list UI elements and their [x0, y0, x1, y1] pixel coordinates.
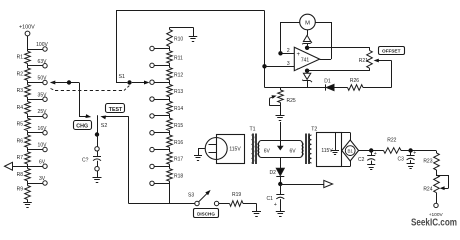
svg-text:T2: T2	[311, 127, 317, 133]
svg-text:B1: B1	[348, 148, 354, 153]
svg-text:SeekIC.com: SeekIC.com	[411, 217, 457, 228]
svg-text:DISCHG: DISCHG	[197, 211, 215, 216]
svg-text:100V: 100V	[36, 42, 48, 48]
svg-text:R19: R19	[232, 192, 241, 198]
svg-text:R4: R4	[17, 105, 24, 111]
svg-text:R23: R23	[423, 159, 432, 165]
svg-text:R1: R1	[17, 55, 24, 61]
svg-text:D2: D2	[270, 170, 277, 176]
svg-text:S3: S3	[188, 193, 194, 199]
svg-text:M: M	[305, 20, 310, 26]
svg-text:−: −	[297, 66, 301, 72]
svg-text:R17: R17	[174, 157, 183, 163]
svg-text:6V: 6V	[264, 148, 271, 154]
svg-text:D1: D1	[324, 78, 331, 84]
svg-text:115V: 115V	[229, 147, 241, 153]
svg-text:35V: 35V	[38, 92, 48, 98]
svg-text:T1: T1	[250, 127, 256, 133]
svg-text:C3: C3	[398, 156, 405, 162]
svg-text:CHG: CHG	[76, 124, 88, 130]
svg-text:C1: C1	[267, 196, 274, 202]
svg-text:25V: 25V	[38, 109, 48, 115]
svg-text:16V: 16V	[38, 126, 48, 132]
svg-text:OFFSET: OFFSET	[382, 49, 401, 54]
svg-text:+: +	[374, 151, 377, 157]
svg-text:R26: R26	[350, 78, 359, 84]
svg-text:R8: R8	[17, 172, 24, 178]
svg-text:+: +	[274, 202, 277, 208]
svg-text:R11: R11	[174, 56, 183, 62]
svg-text:3V: 3V	[39, 176, 46, 182]
svg-text:C?: C?	[82, 158, 89, 164]
svg-text:TEST: TEST	[109, 107, 123, 113]
svg-text:2: 2	[287, 48, 290, 54]
svg-text:R12: R12	[174, 72, 183, 78]
svg-text:R21: R21	[359, 58, 368, 64]
svg-text:R18: R18	[174, 173, 183, 179]
svg-text:63V: 63V	[38, 59, 48, 65]
svg-text:741: 741	[301, 57, 310, 63]
svg-text:R7: R7	[17, 155, 24, 161]
svg-text:R9: R9	[17, 187, 24, 193]
svg-text:+100V: +100V	[19, 25, 35, 31]
svg-text:R10: R10	[174, 37, 183, 43]
svg-text:3: 3	[287, 61, 290, 67]
svg-text:+: +	[413, 150, 416, 156]
svg-text:R3: R3	[17, 88, 24, 94]
svg-text:R6: R6	[17, 138, 24, 144]
svg-text:R22: R22	[387, 137, 396, 143]
svg-text:R5: R5	[17, 122, 24, 128]
svg-text:R2: R2	[17, 71, 24, 77]
svg-text:R25: R25	[287, 98, 296, 104]
svg-text:S1: S1	[119, 74, 126, 80]
svg-text:50V: 50V	[38, 76, 48, 82]
svg-text:6V: 6V	[39, 159, 46, 165]
svg-text:C2: C2	[358, 157, 365, 163]
svg-text:R13: R13	[174, 89, 183, 95]
svg-text:R24: R24	[423, 187, 432, 193]
svg-text:10V: 10V	[38, 143, 48, 149]
svg-text:R14: R14	[174, 106, 183, 112]
svg-text:S2: S2	[101, 123, 108, 129]
svg-text:6V: 6V	[289, 148, 296, 154]
svg-text:R16: R16	[174, 140, 183, 146]
svg-text:R15: R15	[174, 123, 183, 129]
